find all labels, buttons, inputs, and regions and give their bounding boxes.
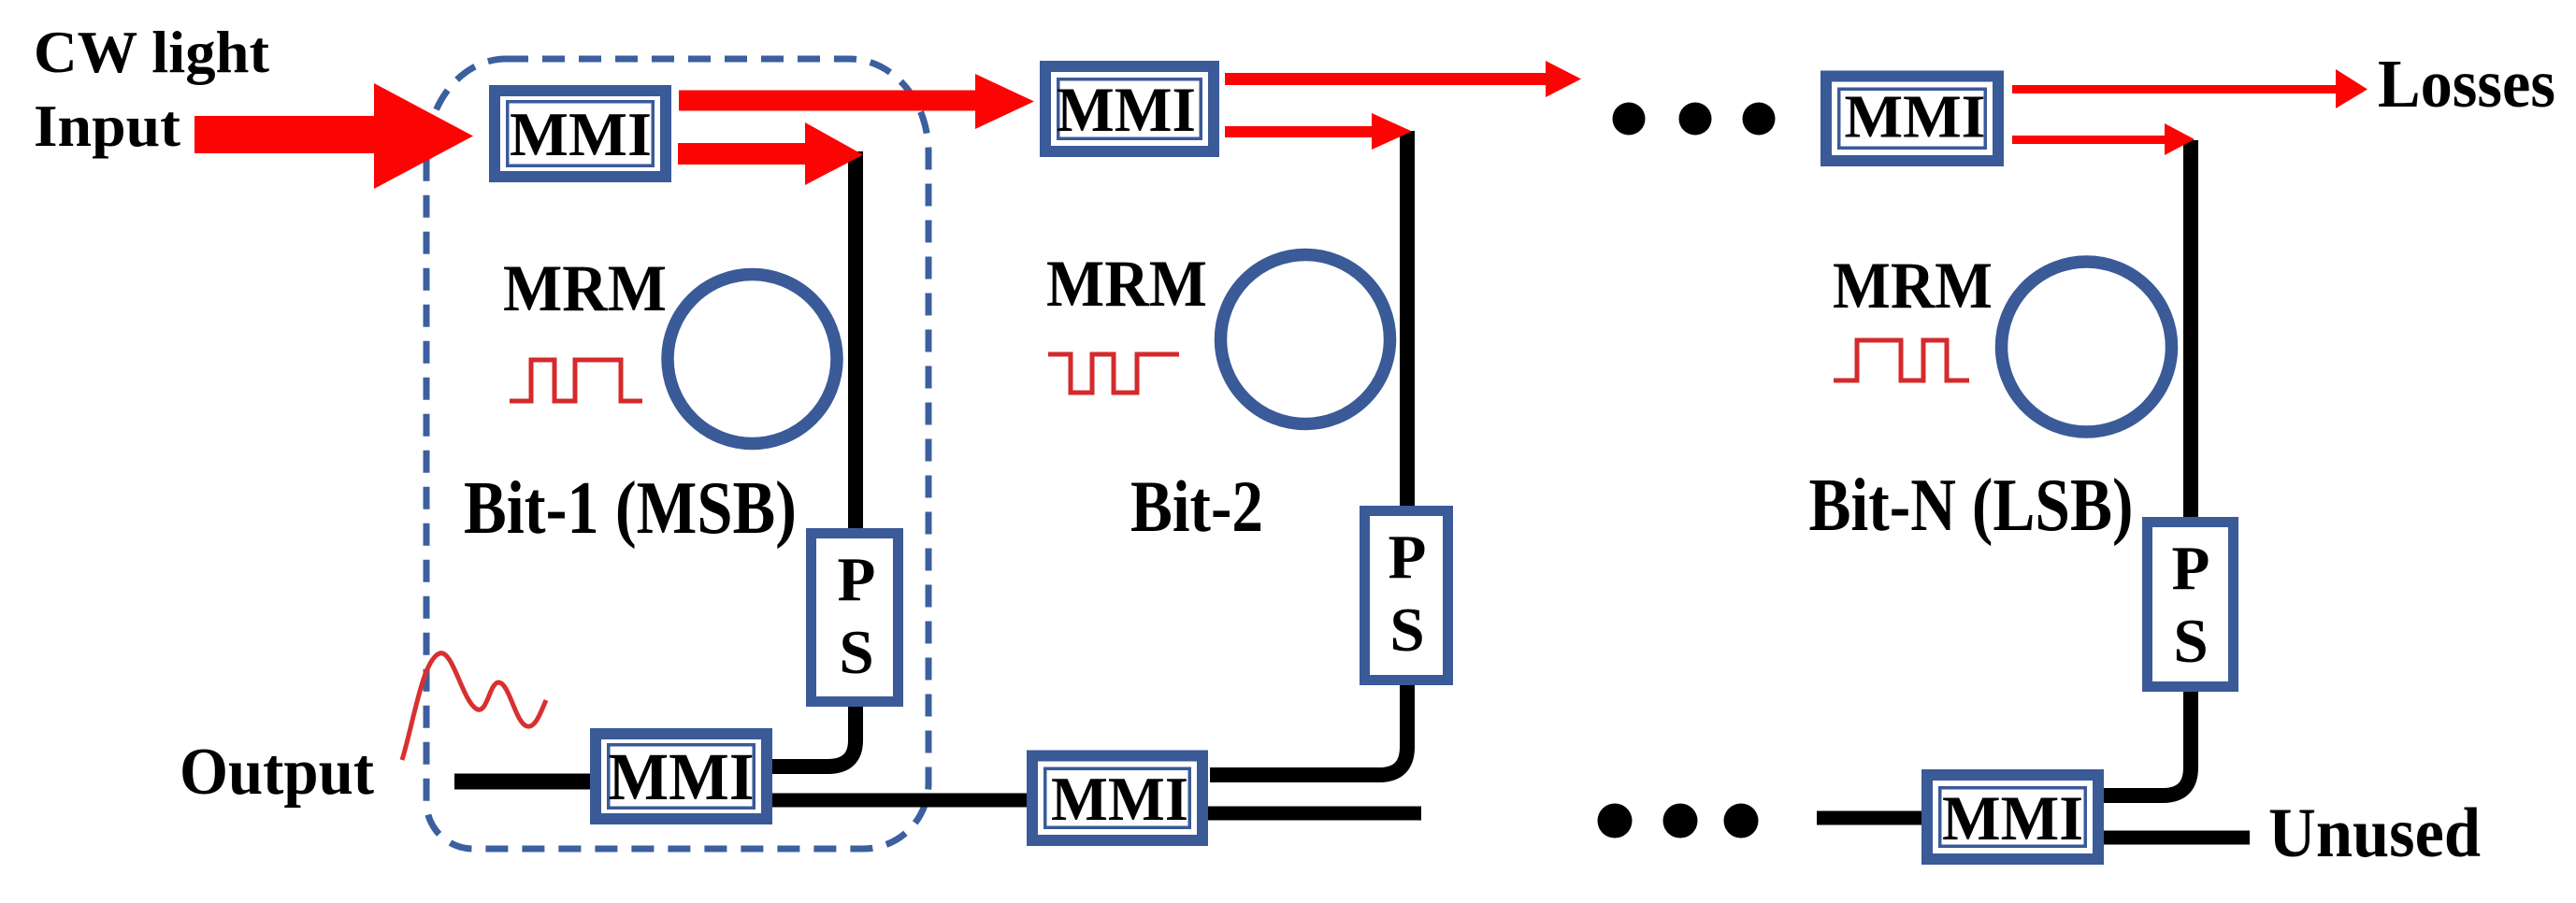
wire dots to lower MMI-N [1817, 811, 1921, 825]
svg-text:Output: Output [180, 736, 374, 809]
svg-text:MRM: MRM [1833, 250, 1993, 322]
wire PS2 to lower MMI2 [1210, 681, 1407, 775]
svg-text:MMI: MMI [1057, 74, 1196, 145]
svg-text:MMI: MMI [609, 739, 755, 814]
drive waveform stageN (NRZ pulses) [1834, 340, 1969, 380]
svg-text:P: P [2172, 534, 2210, 603]
svg-text:MRM: MRM [503, 252, 667, 325]
svg-text:P: P [1389, 523, 1427, 592]
wire Output from lower MMI1 [454, 774, 590, 790]
svg-text:MMI: MMI [510, 100, 652, 169]
wire PS-N to lower MMI-N [2104, 688, 2191, 795]
arrow MMI-N top output to Losses [2012, 69, 2367, 108]
svg-text:MRM: MRM [1046, 248, 1207, 321]
svg-text:Losses: Losses [2378, 46, 2555, 122]
ellipsis dots top [1613, 103, 1776, 136]
wire lower MMI2 stub right [1208, 807, 1421, 821]
MMI coupler (bottom, stage 1) [596, 734, 767, 819]
svg-text:MMI: MMI [1942, 782, 2083, 853]
svg-text:Input: Input [34, 93, 180, 159]
arrow MMI1 bottom output to MRM1 [678, 122, 863, 185]
svg-text:Unused: Unused [2268, 795, 2481, 872]
MMI coupler (top, stage N) [1826, 77, 1998, 162]
micro-ring modulator MRM2 [1221, 255, 1390, 424]
svg-text:MMI: MMI [1845, 83, 1986, 151]
label CW light Input [34, 20, 269, 159]
input CW light arrow [194, 83, 473, 189]
wire lower MMI1 to lower MMI2 [772, 794, 1030, 808]
arrow MMI-N bottom output to MRM-N [2012, 123, 2195, 155]
drive waveform stage1 (NRZ pulses) [510, 360, 642, 401]
ellipsis dots bottom [1598, 804, 1759, 838]
arrow MMI2 bottom output to MRM2 [1225, 113, 1412, 150]
svg-text:Bit-N (LSB): Bit-N (LSB) [1809, 465, 2134, 547]
dashed Bit-1 cell boundary [426, 59, 928, 849]
wire vertical stage2 drop [1400, 131, 1415, 509]
MMI coupler U1 (top, stage 1) [495, 91, 666, 177]
drive waveform stage2 (inverted pulses) [1048, 354, 1179, 393]
wire lower MMI-N to Unused [2104, 831, 2250, 845]
svg-text:S: S [1389, 595, 1424, 665]
svg-text:P: P [838, 545, 876, 614]
MMI coupler (bottom, stage 2) [1032, 756, 1202, 841]
arrow MMI1 top output to MMI2 [679, 74, 1034, 129]
svg-text:Bit-1 (MSB): Bit-1 (MSB) [464, 467, 797, 550]
micro-ring modulator MRM1 [668, 275, 837, 444]
MMI coupler (top, stage 2) [1045, 66, 1214, 151]
arrow MMI2 top output (to dots) [1225, 61, 1581, 97]
phase shifter PS-N [2148, 523, 2234, 687]
svg-text:S: S [2173, 607, 2208, 676]
wire vertical stageN drop [2183, 140, 2198, 521]
phase shifter PS2 [1365, 511, 1448, 681]
svg-text:S: S [839, 618, 873, 687]
svg-text:Bit-2: Bit-2 [1130, 466, 1263, 547]
micro-ring modulator MRM-N [2002, 262, 2172, 432]
svg-text:CW light: CW light [34, 20, 269, 85]
wire vertical stage1 drop [848, 151, 863, 530]
MMI coupler (bottom, stage N) [1927, 775, 2098, 859]
output analog waveform [402, 653, 546, 760]
svg-text:MMI: MMI [1051, 765, 1188, 834]
wire PS1 to lower MMI1 [772, 701, 856, 767]
phase shifter PS1 [812, 534, 899, 702]
